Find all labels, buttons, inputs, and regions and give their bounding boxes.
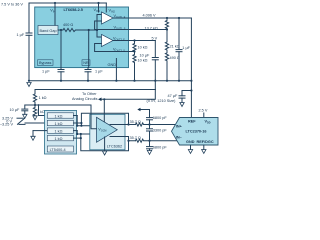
wire 4.096V rail [129, 17, 192, 19]
pin Bypass label [38, 60, 54, 66]
capacitor bypass 1uF [42, 30, 64, 81]
wire VOUT1_S to divider [129, 29, 168, 31]
svg-text:1 µF: 1 µF [95, 70, 103, 74]
resistor divider 1k upper [33, 90, 46, 106]
wire VOUT2_S to divider [129, 51, 135, 53]
part label LT5400-4 [47, 146, 73, 152]
resistor 10k lower [133, 52, 148, 81]
wire 5V rail [129, 40, 156, 42]
capacitor 6800pF bottom [147, 141, 168, 155]
svg-text:10 µF: 10 µF [10, 108, 20, 112]
svg-text:4.096 V: 4.096 V [143, 14, 157, 18]
svg-text:7.5 V to 36 V: 7.5 V to 36 V [1, 3, 23, 7]
svg-text:1 kΩ: 1 kΩ [39, 96, 47, 100]
svg-text:6800 pF: 6800 pF [153, 116, 168, 120]
capacitor 1uF output [176, 18, 191, 81]
IC U1 LT6658-2.5 block [35, 7, 129, 68]
pin VIN1 [94, 3, 101, 13]
node VOUT1_S sense [166, 28, 168, 30]
svg-text:1 kΩ: 1 kΩ [55, 114, 63, 118]
node rail junctions [28, 80, 30, 82]
node VOCM tap [34, 104, 36, 106]
svg-text:1 kΩ: 1 kΩ [55, 129, 63, 133]
wire VDD supply [203, 113, 205, 118]
wire ADC GND pin [188, 145, 192, 153]
wire input merge + [77, 116, 96, 126]
IC U4 LTC2370-16 ADC [172, 118, 219, 146]
capacitor 6800pF top [137, 108, 167, 125]
wire feedback top [81, 113, 128, 124]
wire NR internal [88, 30, 90, 68]
svg-text:3300 pF: 3300 pF [153, 128, 168, 132]
svg-text:LT5400-4: LT5400-4 [50, 148, 66, 152]
wire buffer + input split [96, 15, 98, 38]
voltage source +/-3.25V [0, 117, 47, 127]
capacitor NR 1uF [85, 68, 103, 81]
ground symbol divider [33, 116, 37, 120]
wire VOUT1_S feedback [95, 21, 129, 30]
svg-text:(X7R, 1210 Size): (X7R, 1210 Size) [147, 99, 177, 103]
svg-text:GND: GND [186, 140, 195, 144]
ground symbol rail [27, 83, 31, 87]
svg-text:47 µF: 47 µF [168, 94, 178, 98]
capacitor 10uF VOCM [10, 105, 36, 118]
band gap reference block [38, 26, 58, 35]
op-amp LTC6362 triangle [97, 117, 118, 142]
svg-text:Analog Circuits: Analog Circuits [72, 97, 98, 101]
svg-text:LTC2370-16: LTC2370-16 [186, 130, 207, 134]
svg-text:LT6658-2.5: LT6658-2.5 [64, 8, 83, 12]
wire GND pin [115, 59, 117, 81]
resistor 13.7k [145, 18, 169, 30]
svg-text:NR: NR [83, 61, 89, 65]
resistor R_B 1k [47, 120, 81, 126]
svg-text:–3.25 V: –3.25 V [0, 123, 13, 127]
resistor R_C 1k [33, 128, 77, 133]
resistor 35.7 ohm - [130, 136, 178, 142]
wire 5V distribution [35, 89, 155, 91]
svg-text:REF/DGC: REF/DGC [197, 140, 214, 144]
svg-text:5 V: 5 V [152, 37, 158, 41]
svg-text:490 Ω: 490 Ω [170, 56, 180, 60]
pin NR label [82, 60, 90, 66]
capacitor C_IN 1uF [17, 3, 33, 81]
node NR junction [88, 29, 90, 31]
IC U3 LTC6362 block [90, 114, 125, 150]
node 47uF junction [190, 89, 192, 91]
capacitor 47uF X7R [147, 91, 192, 107]
wire input merge - [77, 131, 96, 134]
svg-text:400 Ω: 400 Ω [63, 23, 73, 27]
node VOUT2_S sense [133, 50, 135, 52]
svg-text:10 kΩ: 10 kΩ [138, 59, 148, 63]
IC U2 LT5400-4 quad resistor network [45, 110, 77, 154]
resistor 400 ohm [58, 23, 97, 32]
wire OUT+ [110, 124, 136, 126]
pin VIN2 [106, 3, 115, 13]
svg-text:IN+: IN+ [176, 124, 183, 128]
wire ADC REF/DGC pin [202, 145, 206, 153]
wire feedback bottom [81, 134, 129, 151]
svg-text:2.5 V: 2.5 V [199, 109, 208, 113]
svg-text:REF: REF [188, 120, 196, 124]
capacitor 10uF 5V [140, 41, 159, 90]
wire ground rail [29, 80, 191, 82]
svg-text:LTC6362: LTC6362 [107, 144, 122, 148]
wire VOUT2_S feedback [95, 44, 129, 52]
svg-text:10 µF: 10 µF [140, 54, 150, 58]
svg-text:Bypass: Bypass [39, 61, 52, 65]
wire top supply rail [29, 2, 106, 4]
svg-text:6800 pF: 6800 pF [153, 146, 168, 150]
node V+ junction [103, 98, 105, 100]
svg-text:1 µF: 1 µF [42, 70, 50, 74]
wire VOUT2_F output [113, 40, 129, 42]
wire V+ supply [103, 99, 105, 121]
node VIN junction [54, 2, 56, 4]
wire VOUT1_F output [113, 17, 129, 19]
svg-text:1 µF: 1 µF [17, 33, 25, 37]
wire OUT- [110, 137, 136, 141]
resistor 21k [165, 30, 179, 52]
svg-text:10 kΩ: 10 kΩ [138, 46, 148, 50]
resistor divider 1k lower [33, 105, 45, 116]
svg-text:Band Gap: Band Gap [40, 29, 57, 33]
resistor 35.7 ohm + [130, 120, 176, 126]
wire VOCM tap to R_A [39, 105, 48, 116]
op-amp buffer A1 [102, 12, 114, 24]
resistor R_D 1k [47, 135, 81, 141]
wire VOCM feed [35, 105, 97, 129]
svg-text:21 kΩ: 21 kΩ [170, 45, 180, 49]
wire V- ground [102, 137, 106, 155]
wire to other analog circuits arrow [98, 98, 102, 102]
svg-text:GND: GND [108, 63, 117, 67]
svg-text:IN–: IN– [176, 136, 182, 140]
svg-text:1 µF: 1 µF [182, 46, 190, 50]
svg-text:To Other: To Other [82, 92, 97, 96]
resistor 499 ohm [165, 52, 179, 81]
wire REF line [190, 18, 192, 118]
op-amp buffer A2 [102, 35, 114, 47]
resistor 10k upper [133, 41, 148, 52]
ground symbol R_C input [31, 131, 35, 141]
svg-text:1 kΩ: 1 kΩ [55, 122, 63, 126]
svg-text:1 kΩ: 1 kΩ [55, 137, 63, 141]
capacitor 3300pF differential [147, 125, 168, 141]
resistor R_A 1k [47, 113, 77, 119]
node VIN1 junction [97, 2, 99, 4]
pin VIN [50, 3, 55, 26]
